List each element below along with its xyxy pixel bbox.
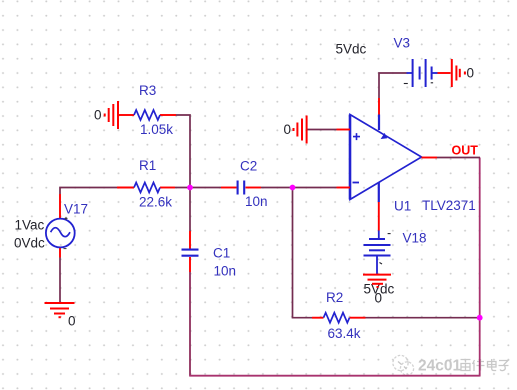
ground 0 under V17 [45, 303, 75, 317]
capacitor C2 [221, 187, 261, 189]
wire R1 to C2 through node A [175, 187, 221, 189]
svg-text:0: 0 [284, 122, 292, 137]
wire bottom feedback run [189, 375, 480, 377]
svg-text:V17: V17 [64, 202, 88, 217]
op-amp U1 TLV2371 [350, 115, 422, 200]
node B junction [290, 185, 296, 191]
svg-text:10n: 10n [214, 264, 237, 279]
svg-text:1.05k: 1.05k [140, 122, 173, 137]
svg-text:R1: R1 [139, 158, 156, 173]
DC source V18 [378, 231, 380, 240]
wire op-amp output to riser [437, 157, 480, 159]
svg-text:24c01: 24c01 [418, 358, 461, 375]
svg-text:0: 0 [68, 314, 76, 329]
svg-text:V3: V3 [394, 36, 411, 51]
svg-text:C1: C1 [213, 246, 230, 261]
wire node A down to C1 [189, 188, 191, 232]
wire R2 to riser [366, 317, 480, 319]
svg-text:V18: V18 [403, 231, 427, 246]
wire R3 output down to node A [176, 115, 190, 188]
output junction at R2 [477, 315, 483, 321]
svg-text:63.4k: 63.4k [328, 326, 361, 341]
svg-text:22.6k: 22.6k [139, 195, 172, 210]
svg-text:C2: C2 [240, 159, 257, 174]
wire C1 bottom down [189, 272, 191, 376]
wire right feedback riser [479, 158, 481, 377]
wire C2 to op-amp inverting input [261, 187, 337, 189]
svg-text:R3: R3 [139, 83, 156, 98]
svg-text:0: 0 [94, 108, 102, 123]
capacitor C1 [189, 231, 191, 272]
svg-text:TLV2371: TLV2371 [422, 198, 476, 213]
watermark glyphs [461, 359, 509, 371]
power symbol 0 at V3 [452, 59, 465, 87]
AC source V17 [14, 194, 88, 258]
svg-text:10n: 10n [245, 194, 268, 209]
svg-text:0Vdc: 0Vdc [14, 236, 45, 251]
power symbol 0 at op-amp + input [294, 116, 307, 144]
svg-text:1Vac: 1Vac [15, 218, 45, 233]
wire V17 to ground [59, 258, 61, 304]
wire node B down to R2 [293, 188, 313, 318]
wire gnd to op-amp + input [308, 129, 337, 131]
wire from V17 top to R1 [60, 188, 117, 195]
resistor R1 [117, 187, 175, 189]
svg-text:U1: U1 [394, 199, 411, 214]
power symbol 0 at R3 [105, 101, 118, 129]
resistor R3 [119, 114, 176, 116]
ground 0 under V18 [363, 275, 391, 287]
DC source V3 [407, 72, 413, 74]
resistor R2 [312, 317, 366, 319]
node A junction [187, 185, 193, 191]
svg-text:R2: R2 [326, 290, 343, 305]
wire V+ corner to V3 [379, 73, 407, 98]
svg-text:0: 0 [467, 66, 475, 81]
svg-text:OUT: OUT [452, 144, 479, 158]
svg-text:5Vdc: 5Vdc [336, 42, 367, 57]
svg-text:0: 0 [375, 291, 383, 306]
watermark logo [393, 355, 414, 375]
